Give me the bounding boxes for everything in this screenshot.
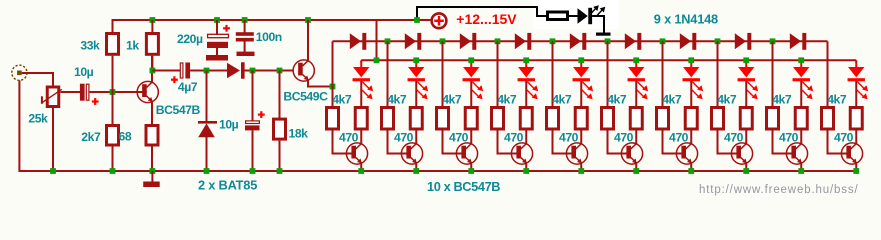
node emitter ground stage 4 [523,168,529,174]
resistor 470 stage 4 [520,108,532,130]
resistor R1 33k [112,19,114,33]
resistor 470 stage 9 [795,108,807,130]
wire D10 to C5 R5 [244,70,294,72]
node D10 D11 [204,68,210,74]
wire chain tap to base resistor stage 5 [552,41,554,106]
wire LED feed stage 4 [525,62,527,68]
svg-text:4k7: 4k7 [772,93,792,107]
wire chain tap to base resistor stage 10 [827,41,829,106]
svg-text:4k7: 4k7 [497,93,517,107]
svg-text:4µ7: 4µ7 [178,80,198,94]
transistor BC547B stage 1 [346,143,367,164]
wire collector stage 5 [580,131,582,144]
capacitor C4 100n [244,20,246,33]
svg-text:220µ: 220µ [177,32,203,46]
node LED rail tap stage 3 [468,57,474,63]
LED stage 1 [353,67,369,77]
node emitter ground stage 8 [743,168,749,174]
node ground D11 [204,168,210,174]
capacitor C3 4u7 electrolytic [180,63,183,78]
LED stage 7 [683,67,699,77]
svg-text:2 x BAT85: 2 x BAT85 [198,178,257,193]
wire emitter to ground stage 8 [745,164,747,171]
power LED black [578,8,588,24]
wire LED anode rail [361,59,856,61]
svg-text:4k7: 4k7 [387,93,407,107]
wire LED feed stage 3 [470,62,472,68]
node ground R4 [150,168,156,174]
svg-text:1k: 1k [126,39,139,53]
supply symbol +12V [432,13,447,28]
transistor BC547B stage 5 [566,143,587,164]
LED stage 4 [518,67,534,77]
wire base stage 4 [498,131,518,154]
transistor BC547B stage 10 [841,143,862,164]
node chain tap 8 [715,38,721,44]
resistor 4k7 stage 3 [437,108,449,130]
wire LED feed stage 10 [855,62,857,68]
resistor 4k7 stage 4 [492,108,504,130]
wire LED to 470 stage 5 [580,81,582,107]
svg-text:http://www.freeweb.hu/bss/: http://www.freeweb.hu/bss/ [699,184,859,196]
wire chain tap to base resistor stage 4 [497,41,499,106]
node emitter ground stage 9 [798,168,804,174]
node rail C2 220u [214,17,220,23]
wire base stage 5 [553,131,573,154]
node LED rail tap stage 8 [743,57,749,63]
svg-text:4k7: 4k7 [717,93,737,107]
wire emitter to ground stage 2 [415,164,417,171]
transistor T1 BC547B [137,81,158,102]
resistor R3 2k7 [112,92,114,125]
diode D4 1N4148 [515,33,526,49]
wire LED feed stage 7 [690,62,692,68]
wire LED feed stage 8 [745,62,747,68]
capacitor C1 10u electrolytic [80,84,85,101]
resistor 4k7 stage 10 [822,108,834,130]
resistor 4k7 stage 5 [547,108,559,130]
resistor 470 stage 6 [630,108,642,130]
svg-text:4k7: 4k7 [607,93,627,107]
diode D8 1N4148 [735,33,746,49]
svg-text:33k: 33k [80,39,100,53]
svg-text:10 x BC547B: 10 x BC547B [427,179,500,194]
svg-text:4k7: 4k7 [442,93,462,107]
wire LED to 470 stage 2 [415,81,417,107]
wire emitter T2 to ladder [308,81,333,87]
LED stage 8 [738,67,754,77]
wire collector stage 6 [635,131,637,144]
resistor 470 stage 8 [740,108,752,130]
node R5 [277,68,283,74]
diode D9 1N4148 [790,33,801,49]
diode D6 1N4148 [625,33,636,49]
wire collector stage 7 [690,131,692,144]
resistor 470 stage 10 [850,108,862,130]
ground symbol [151,171,153,182]
diode D10 BAT85 series [227,63,240,79]
svg-text:18k: 18k [289,127,309,141]
node LED rail tap stage 2 [413,57,419,63]
svg-text:4k7: 4k7 [827,93,847,107]
node emitter ground stage 5 [578,168,584,174]
white backdrop power indicator [533,0,619,29]
node LED rail tap stage 7 [688,57,694,63]
wire LED to 470 stage 4 [525,81,527,107]
wire power LED to ground bar [592,16,604,33]
wire node to C3 [152,70,180,72]
potentiometer P1 25k [47,87,59,107]
wire base stage 9 [773,131,793,154]
svg-text:2k7: 2k7 [81,130,101,144]
wire emitter to ground stage 9 [800,164,802,171]
wire LED feed stage 1 [360,62,362,68]
node ground C5 [250,168,256,174]
resistor R4 68 [146,126,158,146]
node chain tap 2 [385,38,391,44]
diode D7 1N4148 [680,33,691,49]
wire collector stage 4 [525,131,527,144]
resistor R5 18k [279,71,281,119]
transistor BC547B stage 2 [401,143,422,164]
wire black supply branch [417,7,547,20]
resistor 470 stage 1 [355,108,367,130]
wire chain tap to base resistor stage 9 [772,41,774,106]
node rail collector T2 [305,17,311,23]
diode D1 1N4148 [350,33,361,49]
wire base stage 1 [333,131,353,154]
diode D5 1N4148 [570,33,581,49]
LED stage 6 [628,67,644,77]
wire emitter to ground stage 6 [635,164,637,171]
resistor 470 stage 2 [410,108,422,130]
wire collector stage 2 [415,131,417,144]
wire chain tap to base resistor stage 1 [332,41,334,106]
wire chain tap to base resistor stage 2 [387,41,389,106]
wire collector stage 8 [745,131,747,144]
node chain tap 4 [495,38,501,44]
diode D2 1N4148 [405,33,416,49]
svg-text:9 x 1N4148: 9 x 1N4148 [654,12,718,27]
transistor BC547B stage 4 [511,143,532,164]
svg-text:25k: 25k [28,112,48,126]
resistor 470 stage 7 [685,108,697,130]
svg-text:+12...15V: +12...15V [456,11,517,27]
node emitter ground stage 6 [633,168,639,174]
LED stage 10 [848,67,864,77]
wire emitter to ground stage 7 [690,164,692,171]
wire emitter T1 to R4 [151,102,153,125]
wire LED to 470 stage 3 [470,81,472,107]
wire LED to 470 stage 1 [360,81,362,107]
wire +12V top rail [113,19,431,21]
node LED rail tap stage 6 [633,57,639,63]
LED stage 3 [463,67,479,77]
node emitter ground stage 3 [468,168,474,174]
node LED rail tap stage 4 [523,57,529,63]
node emitter ground stage 7 [688,168,694,174]
wire base stage 2 [388,131,408,154]
transistor BC547B stage 6 [621,143,642,164]
capacitor C5 10u electrolytic [252,71,254,122]
wire collector T1 [151,56,153,83]
wire emitter to ground stage 4 [525,164,527,171]
node emitter ground stage 2 [413,168,419,174]
ground bar black [596,33,611,36]
resistor 470 stage 3 [465,108,477,130]
diode D3 1N4148 [460,33,471,49]
wire ground rail [19,80,856,171]
svg-text:68: 68 [119,130,132,144]
transistor T2 BC549C [293,60,314,81]
resistor 4k7 stage 8 [712,108,724,130]
wire emitter to ground stage 1 [360,164,362,171]
wire collector stage 9 [800,131,802,144]
LED stage 5 [573,67,589,77]
node LED rail +12 feed [374,57,380,63]
wire chain tap to base resistor stage 8 [717,41,719,106]
wire base stage 8 [718,131,738,154]
wire LED to 470 stage 7 [690,81,692,107]
wire collector T2 [307,20,309,61]
wire +12V feed to LED rail [376,20,378,60]
wire chain tap to base resistor stage 3 [442,41,444,106]
node ground R3 [110,168,116,174]
wire LED to 470 stage 9 [800,81,802,107]
transistor BC547B stage 7 [676,143,697,164]
svg-text:100n: 100n [256,30,282,44]
wire chain tap to base resistor stage 6 [607,41,609,106]
wire emitter to ground stage 3 [470,164,472,171]
resistor 4k7 stage 9 [767,108,779,130]
transistor BC547B stage 9 [786,143,807,164]
wire chain tap to base resistor stage 7 [662,41,664,106]
input jack X1 [12,65,27,80]
wire C3 to D10 [190,70,227,72]
svg-text:10µ: 10µ [74,65,94,79]
wire LED to 470 stage 6 [635,81,637,107]
resistor 4k7 stage 7 [657,108,669,130]
node emitter ground stage 10 [853,168,859,174]
node chain tap 6 [605,38,611,44]
wire base stage 7 [663,131,683,154]
node C5 [250,68,256,74]
wire LED feed stage 5 [580,62,582,68]
node base T1 / R1 / R3 [110,89,116,95]
node rail R2 [150,17,156,23]
wire base stage 6 [608,131,628,154]
wire LED to 470 stage 10 [855,81,857,107]
diode D11 BAT85 clamp [206,71,208,123]
node chain tap 5 [550,38,556,44]
node rail black branch [414,17,420,23]
capacitor C2 220u electrolytic [216,20,218,35]
wire base stage 3 [443,131,463,154]
svg-text:4k7: 4k7 [332,93,352,107]
resistor 470 stage 5 [575,108,587,130]
node LED rail tap stage 9 [798,57,804,63]
resistor 4k7 stage 1 [327,108,339,130]
wire LED feed stage 2 [415,62,417,68]
resistor 4k7 stage 6 [602,108,614,130]
node LED rail tap stage 5 [578,57,584,63]
wire collector stage 3 [470,131,472,144]
wire jack to potentiometer [22,73,53,86]
wire emitter to ground stage 10 [855,164,857,171]
transistor BC547B stage 8 [731,143,752,164]
wire collector stage 10 [855,131,857,144]
LED stage 9 [793,67,809,77]
wire pot to C1 [52,108,54,171]
svg-text:10µ: 10µ [219,117,239,131]
LED stage 2 [408,67,424,77]
svg-text:4k7: 4k7 [662,93,682,107]
node ground R5 [277,168,283,174]
wire LED feed stage 9 [800,62,802,68]
svg-text:BC547B: BC547B [156,103,201,117]
node emitter ground stage 1 [358,168,364,174]
wire base stage 10 [828,131,848,154]
svg-text:4k7: 4k7 [552,93,572,107]
node rail C4 100n [242,17,248,23]
resistor 4k7 stage 2 [382,108,394,130]
resistor black series [548,12,568,20]
node collector T1 / C3 [150,68,156,74]
svg-text:BC549C: BC549C [283,89,328,103]
node chain tap 3 [440,38,446,44]
node emitter T2 / chain start [330,84,336,90]
wire C1 to base of T1 [90,91,138,93]
node chain tap 9 [770,38,776,44]
node ground pot [50,168,56,174]
node chain tap 7 [660,38,666,44]
wire LED feed stage 6 [635,62,637,68]
wire diode chain rail [333,40,828,42]
resistor R2 1k [151,20,153,33]
wire collector stage 1 [360,131,362,144]
wire emitter to ground stage 5 [580,164,582,171]
wire resistor to power LED [569,15,578,17]
wire LED to 470 stage 8 [745,81,747,107]
transistor BC547B stage 3 [456,143,477,164]
